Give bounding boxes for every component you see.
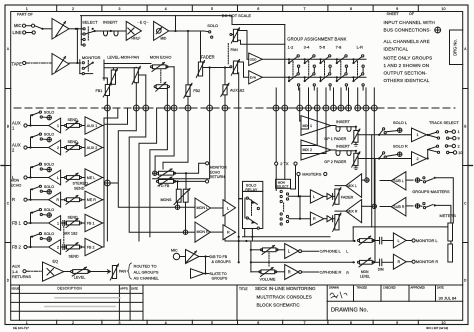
svg-text:DRG No.: DRG No. bbox=[453, 39, 458, 56]
wire mic amp out bbox=[69, 28, 81, 30]
svg-text:KE 104-717: KE 104-717 bbox=[13, 326, 29, 330]
phones volume L pot bbox=[250, 245, 285, 254]
bus node 7 bbox=[207, 105, 213, 111]
svg-text:FB 2: FB 2 bbox=[87, 245, 95, 249]
svg-text:SLATE TO: SLATE TO bbox=[210, 272, 227, 276]
bus node 18 bbox=[355, 105, 361, 111]
svg-text:2: 2 bbox=[72, 7, 74, 11]
meter bar 2 bbox=[448, 244, 453, 262]
groups masters label bbox=[412, 189, 450, 194]
svg-text:MON: MON bbox=[11, 179, 20, 183]
phones volume R pot bbox=[251, 253, 285, 281]
stereo bus node bbox=[105, 180, 111, 186]
svg-text:SEND: SEND bbox=[74, 187, 85, 191]
svg-text:TO FB: TO FB bbox=[159, 184, 170, 188]
svg-text:TRACK SELECT: TRACK SELECT bbox=[429, 120, 459, 125]
svg-text:& GROUPS: & GROUPS bbox=[212, 260, 232, 264]
svg-text:FB 1: FB 1 bbox=[12, 220, 22, 225]
svg-text:SELECT: SELECT bbox=[82, 20, 98, 25]
wire relay to bus bbox=[245, 229, 251, 273]
svg-text:SOLO: SOLO bbox=[44, 185, 55, 189]
svg-text:5: 5 bbox=[211, 7, 213, 11]
svg-text:SUB L: SUB L bbox=[393, 179, 404, 183]
svg-text:- E Q -: - E Q - bbox=[138, 21, 150, 25]
phones L buffer amp bbox=[223, 200, 236, 216]
phones L terminal bbox=[299, 249, 342, 254]
slate label bbox=[210, 272, 228, 281]
bus node 16 bbox=[338, 105, 344, 111]
aux1-2 pot bbox=[221, 68, 245, 109]
monitor link wire bbox=[353, 227, 448, 241]
svg-text:10: 10 bbox=[458, 151, 462, 155]
wire dashdot bbox=[26, 270, 42, 272]
svg-text:SOLO: SOLO bbox=[44, 232, 55, 236]
bus node 11 bbox=[297, 105, 303, 111]
mic/line select switch bbox=[35, 26, 44, 30]
gp fader trunk wires bbox=[372, 135, 375, 262]
svg-text:STEREO: STEREO bbox=[73, 181, 89, 185]
mic amp bbox=[52, 19, 69, 40]
phones R amp bbox=[285, 265, 299, 280]
wire bbox=[173, 67, 175, 108]
wire select to eq bbox=[95, 30, 127, 32]
bank switch 5 bbox=[352, 55, 364, 86]
svg-text:400 x 297 (ref A3): 400 x 297 (ref A3) bbox=[426, 326, 448, 330]
mon echo labels bbox=[11, 179, 22, 188]
stereo send label bbox=[73, 181, 89, 190]
svg-text:DIM: DIM bbox=[378, 267, 384, 271]
svg-text:INSERT: INSERT bbox=[103, 20, 118, 25]
svg-text:MIX 1&2: MIX 1&2 bbox=[64, 231, 78, 235]
mix R amp bbox=[335, 200, 362, 223]
svg-text:OTHERS IDENTICAL: OTHERS IDENTICAL bbox=[384, 78, 430, 83]
aux return level pot bbox=[71, 267, 91, 279]
sub L node and switch bbox=[406, 177, 453, 223]
bus node 12 bbox=[306, 105, 312, 111]
svg-text:MIX 2: MIX 2 bbox=[303, 148, 313, 152]
mon select switches bbox=[280, 190, 310, 225]
svg-text:PAN: PAN bbox=[231, 48, 239, 52]
L R feed labels bbox=[346, 250, 349, 276]
svg-text:APPROVED: APPROVED bbox=[411, 285, 426, 289]
phones R buffer amp bbox=[223, 225, 236, 240]
bank switch 1 bbox=[288, 55, 300, 86]
fb gang marks bbox=[63, 221, 65, 250]
svg-text:ME R: ME R bbox=[87, 198, 96, 202]
wire masters to mon select bbox=[297, 176, 299, 198]
track1 switches bbox=[427, 129, 460, 141]
mon echo return pot A bbox=[153, 169, 176, 178]
monitor L amp bbox=[393, 233, 406, 248]
mix L in node bbox=[362, 108, 370, 182]
return row ME L bbox=[12, 163, 103, 187]
mons pots bbox=[161, 173, 191, 204]
svg-text:B: B bbox=[464, 124, 466, 128]
svg-text:FB 1: FB 1 bbox=[87, 221, 95, 225]
solo L switch bbox=[379, 120, 408, 135]
svg-text:1-2: 1-2 bbox=[288, 45, 294, 50]
svg-text:7: 7 bbox=[304, 7, 306, 11]
svg-text:TRACED: TRACED bbox=[357, 285, 368, 289]
mon level label bbox=[360, 270, 370, 279]
svg-text:LEVEL: LEVEL bbox=[360, 274, 370, 278]
return row AUX 1 bbox=[12, 111, 103, 135]
dim cap R bbox=[372, 259, 393, 266]
svg-text:AUX 2: AUX 2 bbox=[87, 146, 98, 150]
svg-text:DESCRIPTION: DESCRIPTION bbox=[57, 287, 82, 291]
svg-text:INPUT CHANNEL WITH: INPUT CHANNEL WITH bbox=[384, 20, 435, 25]
mon echo pot 2 bbox=[154, 82, 169, 108]
svg-text:LEVEL: LEVEL bbox=[74, 276, 86, 280]
mix feed wire A bbox=[243, 236, 331, 238]
svg-text:RETURNS: RETURNS bbox=[12, 274, 31, 279]
bus trunk wires bbox=[104, 108, 107, 247]
svg-text:LINE: LINE bbox=[13, 30, 22, 35]
monitor sel R amp bbox=[310, 212, 323, 225]
svg-text:EVN: EVN bbox=[250, 76, 256, 80]
insert jack bbox=[103, 20, 118, 36]
odd group amp bbox=[249, 53, 263, 66]
level pot B bbox=[132, 66, 140, 108]
monitor sel L amp bbox=[310, 190, 323, 203]
pan pot upper bbox=[230, 28, 240, 43]
svg-text:MONITOR R: MONITOR R bbox=[416, 259, 439, 264]
wire to fader bbox=[200, 31, 202, 62]
svg-text:ROUTED TO: ROUTED TO bbox=[134, 264, 157, 269]
aux return pan pot bbox=[110, 264, 126, 280]
wire bbox=[174, 163, 206, 174]
mon fader L bbox=[333, 188, 354, 206]
eq label bbox=[138, 21, 150, 25]
tape input terminal bbox=[12, 61, 26, 66]
svg-text:LEVEL-MON-PAN: LEVEL-MON-PAN bbox=[107, 55, 139, 60]
sub L amp bbox=[380, 172, 406, 190]
svg-text:MIX L: MIX L bbox=[347, 184, 357, 188]
wire pan2 to evn bbox=[238, 62, 249, 77]
svg-text:4: 4 bbox=[165, 321, 167, 325]
return row AUX 2 bbox=[12, 133, 103, 157]
monitor R terminal bbox=[406, 259, 438, 264]
bus node 3 bbox=[143, 105, 149, 111]
svg-text:SUB R: SUB R bbox=[393, 205, 404, 209]
svg-text:SOLO L: SOLO L bbox=[393, 120, 408, 125]
monitor L pot bbox=[357, 236, 374, 245]
svg-text:5-6: 5-6 bbox=[319, 45, 326, 50]
bus node 10 bbox=[282, 105, 288, 111]
main mix wire R bbox=[250, 261, 355, 263]
buffer R bbox=[324, 216, 333, 222]
sub R amp bbox=[380, 197, 406, 216]
wire bbox=[64, 271, 73, 273]
svg-text:INSERT: INSERT bbox=[336, 144, 350, 148]
svg-text:ALL GROUPS: ALL GROUPS bbox=[134, 270, 159, 275]
svg-text:METERS: METERS bbox=[440, 213, 457, 218]
mon select box bbox=[276, 108, 291, 189]
svg-text:DRAWING No.: DRAWING No. bbox=[331, 308, 369, 314]
routed note bbox=[128, 263, 160, 281]
svg-text:DATE: DATE bbox=[437, 285, 444, 289]
svg-text:1: 1 bbox=[57, 221, 59, 225]
mix1 amp bbox=[301, 116, 331, 136]
bus node 14 bbox=[323, 105, 329, 111]
bus node 15 bbox=[331, 105, 337, 111]
to fb label bbox=[159, 184, 170, 188]
svg-text:ODD: ODD bbox=[250, 58, 257, 62]
group assignment bank label bbox=[287, 37, 346, 42]
bus node 8 bbox=[222, 105, 228, 111]
svg-text:9: 9 bbox=[396, 7, 398, 11]
odd bus wire bbox=[262, 58, 366, 60]
mon echo return terminal A bbox=[206, 162, 228, 180]
wire tape out bbox=[69, 62, 81, 64]
svg-text:HF/LF: HF/LF bbox=[132, 37, 141, 41]
svg-text:MON R: MON R bbox=[197, 230, 210, 234]
svg-text:B: B bbox=[7, 124, 9, 128]
masters terminals bbox=[297, 172, 327, 177]
svg-text:SOLO: SOLO bbox=[207, 23, 218, 28]
svg-text:MONS: MONS bbox=[161, 198, 172, 202]
mon echo return terminal B bbox=[206, 180, 209, 183]
svg-text:1: 1 bbox=[26, 321, 28, 325]
fb2 pot bbox=[184, 31, 200, 108]
eq to bank wire bbox=[284, 25, 286, 109]
svg-text:MIX 1: MIX 1 bbox=[303, 124, 313, 128]
wire pan to evn bbox=[238, 40, 285, 44]
svg-text:3-4: 3-4 bbox=[304, 45, 311, 50]
bus node 5 bbox=[171, 105, 177, 111]
svg-text:MON L: MON L bbox=[197, 206, 209, 210]
solo R switch bbox=[379, 144, 408, 159]
bus node 4 bbox=[165, 105, 171, 111]
svg-text:PAN: PAN bbox=[119, 270, 127, 274]
svg-text:1: 1 bbox=[458, 129, 460, 134]
svg-text:SHEET: SHEET bbox=[387, 12, 400, 16]
svg-text:8: 8 bbox=[350, 7, 352, 11]
svg-text:ISSUE: ISSUE bbox=[12, 287, 20, 291]
mon R amp bbox=[195, 222, 223, 242]
dim label bbox=[378, 267, 384, 271]
svg-text:2: 2 bbox=[458, 144, 460, 149]
svg-text:MULTITRACK CONSOLES: MULTITRACK CONSOLES bbox=[257, 294, 312, 299]
phones L amp bbox=[285, 244, 299, 259]
svg-text:FB1: FB1 bbox=[96, 89, 103, 93]
return row FB 1 bbox=[12, 208, 103, 232]
svg-text:GP 2 FADER: GP 2 FADER bbox=[324, 160, 346, 164]
svg-text:MONITOR L: MONITOR L bbox=[416, 238, 439, 243]
bus node 9 bbox=[273, 105, 279, 111]
svg-text:ME L: ME L bbox=[87, 176, 96, 180]
svg-text:2: 2 bbox=[57, 146, 59, 150]
talkback mic bbox=[171, 249, 186, 260]
meters label bbox=[440, 213, 457, 218]
wire monitor out bbox=[104, 64, 151, 69]
mix1 in wires bbox=[300, 108, 309, 129]
fader tap wire bbox=[209, 68, 211, 109]
track select label bbox=[429, 120, 459, 125]
channel fader bbox=[196, 54, 214, 77]
svg-text:OUTPUT SECTION-: OUTPUT SECTION- bbox=[384, 71, 428, 76]
svg-text:OF: OF bbox=[409, 12, 415, 16]
svg-text:ALL CHANNELS ARE: ALL CHANNELS ARE bbox=[384, 39, 430, 44]
bank pair labels bbox=[288, 45, 363, 50]
svg-text:7-8: 7-8 bbox=[336, 45, 343, 50]
evn group amp bbox=[249, 71, 263, 84]
wire tape dashdot bbox=[26, 62, 52, 64]
bus node 6 bbox=[185, 105, 191, 111]
svg-text:R: R bbox=[288, 270, 291, 275]
gp2 fader bbox=[324, 151, 360, 170]
line input terminal bbox=[13, 30, 36, 35]
bank tap wires bbox=[299, 67, 375, 108]
svg-text:TAPE: TAPE bbox=[12, 62, 23, 67]
gp1 fader bbox=[324, 127, 360, 147]
tape amp bbox=[52, 54, 69, 75]
svg-text:SOLO: SOLO bbox=[44, 111, 55, 115]
mon sum node L bbox=[175, 202, 195, 209]
svg-text:TITLE: TITLE bbox=[239, 287, 248, 291]
insert1 label bbox=[336, 120, 350, 124]
DO NOT SCALE label bbox=[222, 13, 252, 18]
track amp 2 bbox=[412, 152, 427, 166]
svg-text:MONITOR: MONITOR bbox=[82, 55, 101, 60]
svg-text:RETURN: RETURN bbox=[210, 175, 226, 179]
svg-text:GP 1 FADER: GP 1 FADER bbox=[324, 137, 346, 141]
svg-text:IDENTICAL: IDENTICAL bbox=[384, 47, 409, 52]
svg-text:MON ECHO: MON ECHO bbox=[150, 55, 172, 60]
svg-text:CHECKED: CHECKED bbox=[383, 285, 396, 289]
svg-text:1: 1 bbox=[417, 133, 419, 137]
mix2 in wires bbox=[301, 108, 326, 154]
mon fader R bbox=[333, 213, 341, 231]
bus node 13 bbox=[314, 105, 320, 111]
mon L amp bbox=[195, 198, 223, 218]
svg-text:FB2: FB2 bbox=[193, 89, 200, 93]
svg-text:1: 1 bbox=[26, 7, 28, 11]
mon echo label bbox=[150, 55, 172, 60]
svg-text:L: L bbox=[313, 195, 315, 199]
send label fb2 bbox=[69, 255, 79, 259]
svg-text:9: 9 bbox=[458, 136, 460, 141]
svg-text:INSERT: INSERT bbox=[336, 120, 350, 124]
mix2 amp bbox=[301, 140, 331, 160]
mon echo return pot B bbox=[156, 177, 175, 186]
wire pan to odd bbox=[238, 31, 249, 60]
wire bbox=[88, 270, 110, 273]
return row FB 2 bbox=[12, 232, 103, 256]
svg-text:R: R bbox=[12, 197, 15, 202]
solo relay box bbox=[239, 181, 263, 241]
dim cap L bbox=[372, 237, 393, 244]
svg-text:L: L bbox=[57, 176, 59, 180]
svg-text:MIC: MIC bbox=[14, 23, 22, 28]
svg-text:EQ: EQ bbox=[53, 258, 59, 263]
wire to monitor select bbox=[76, 29, 78, 63]
mic input terminal bbox=[14, 23, 35, 28]
svg-text:DRAWN: DRAWN bbox=[329, 285, 339, 289]
eq mid amp bbox=[154, 21, 169, 40]
eq bypass wire bbox=[81, 16, 285, 25]
svg-text:GROUPS·MASTERS: GROUPS·MASTERS bbox=[412, 189, 450, 194]
svg-text:ECHO: ECHO bbox=[210, 170, 221, 174]
svg-text:PART OF: PART OF bbox=[17, 13, 34, 17]
bus node 17 bbox=[346, 105, 352, 111]
svg-text:9: 9 bbox=[396, 321, 398, 325]
svg-text:1: 1 bbox=[57, 124, 59, 128]
wire pan2 down bbox=[238, 73, 240, 264]
svg-text:FADER: FADER bbox=[201, 54, 215, 59]
svg-text:4: 4 bbox=[165, 7, 167, 11]
svg-text:FB 2: FB 2 bbox=[12, 244, 22, 249]
svg-text:3: 3 bbox=[118, 7, 120, 11]
svg-text:SOLO: SOLO bbox=[44, 163, 55, 167]
track amp 1 bbox=[412, 128, 427, 142]
mon pan wire bbox=[138, 75, 145, 108]
svg-text:2: 2 bbox=[72, 321, 74, 325]
svg-text:SOLO: SOLO bbox=[44, 133, 55, 137]
wire gp2 to track2 bbox=[358, 157, 412, 159]
svg-text:2: 2 bbox=[417, 157, 419, 161]
bank switch 3 bbox=[319, 55, 331, 86]
mon sum node R bbox=[183, 202, 195, 234]
meter bar 1 bbox=[448, 223, 453, 241]
fb1 pot bbox=[96, 78, 112, 108]
insert1 jack bbox=[331, 126, 357, 132]
svg-text:BLOCK SCHEMATIC: BLOCK SCHEMATIC bbox=[257, 303, 301, 308]
svg-text:7: 7 bbox=[304, 321, 306, 325]
svg-text:2: 2 bbox=[57, 245, 59, 249]
svg-text:AUX1&2: AUX1&2 bbox=[230, 89, 244, 93]
monitor R amp bbox=[393, 254, 406, 269]
pan pot lower bbox=[228, 44, 239, 76]
buffer L bbox=[324, 193, 333, 199]
svg-text:D/B TO FB: D/B TO FB bbox=[210, 255, 228, 259]
aux 1-4 returns input bbox=[12, 264, 31, 279]
bus node 20 bbox=[371, 105, 377, 111]
phones R terminal bbox=[299, 270, 342, 275]
routed wires bbox=[104, 108, 243, 241]
svg-text:BUS CONNECTIONS·: BUS CONNECTIONS· bbox=[384, 28, 432, 33]
insert2 label bbox=[336, 144, 350, 148]
wire fader wiper bbox=[203, 66, 230, 68]
svg-text:L: L bbox=[346, 250, 348, 254]
svg-text:C/PHONE R: C/PHONE R bbox=[320, 270, 342, 275]
svg-text:MASTERS: MASTERS bbox=[302, 172, 321, 177]
svg-text:30 JUL 84: 30 JUL 84 bbox=[439, 296, 458, 301]
monitor L terminal bbox=[406, 238, 438, 243]
slate osc amp bbox=[191, 257, 210, 279]
bank switch 4 bbox=[336, 55, 348, 86]
svg-text:6: 6 bbox=[257, 321, 259, 325]
talkback amp bbox=[186, 250, 210, 264]
svg-text:1 AND 2 SHOWN ON: 1 AND 2 SHOWN ON bbox=[384, 63, 430, 68]
svg-text:SOLO R: SOLO R bbox=[393, 144, 408, 149]
wire 2tx to mon select bbox=[276, 165, 295, 190]
wire bbox=[174, 180, 206, 182]
svg-text:L: L bbox=[227, 206, 229, 210]
wire gp1 to track1 bbox=[358, 134, 412, 136]
mix L amp bbox=[335, 174, 362, 198]
PART OF label bbox=[17, 13, 34, 17]
bus node 1 bbox=[105, 105, 111, 111]
sub R node and switch bbox=[406, 203, 451, 245]
svg-text:MONITOR: MONITOR bbox=[210, 166, 227, 170]
svg-text:R: R bbox=[398, 260, 401, 264]
main mix wire L bbox=[225, 240, 356, 242]
svg-text:MID: MID bbox=[161, 37, 168, 41]
note text top right bbox=[384, 12, 441, 83]
svg-text:SELECT: SELECT bbox=[276, 185, 288, 189]
svg-text:MON: MON bbox=[361, 270, 369, 274]
